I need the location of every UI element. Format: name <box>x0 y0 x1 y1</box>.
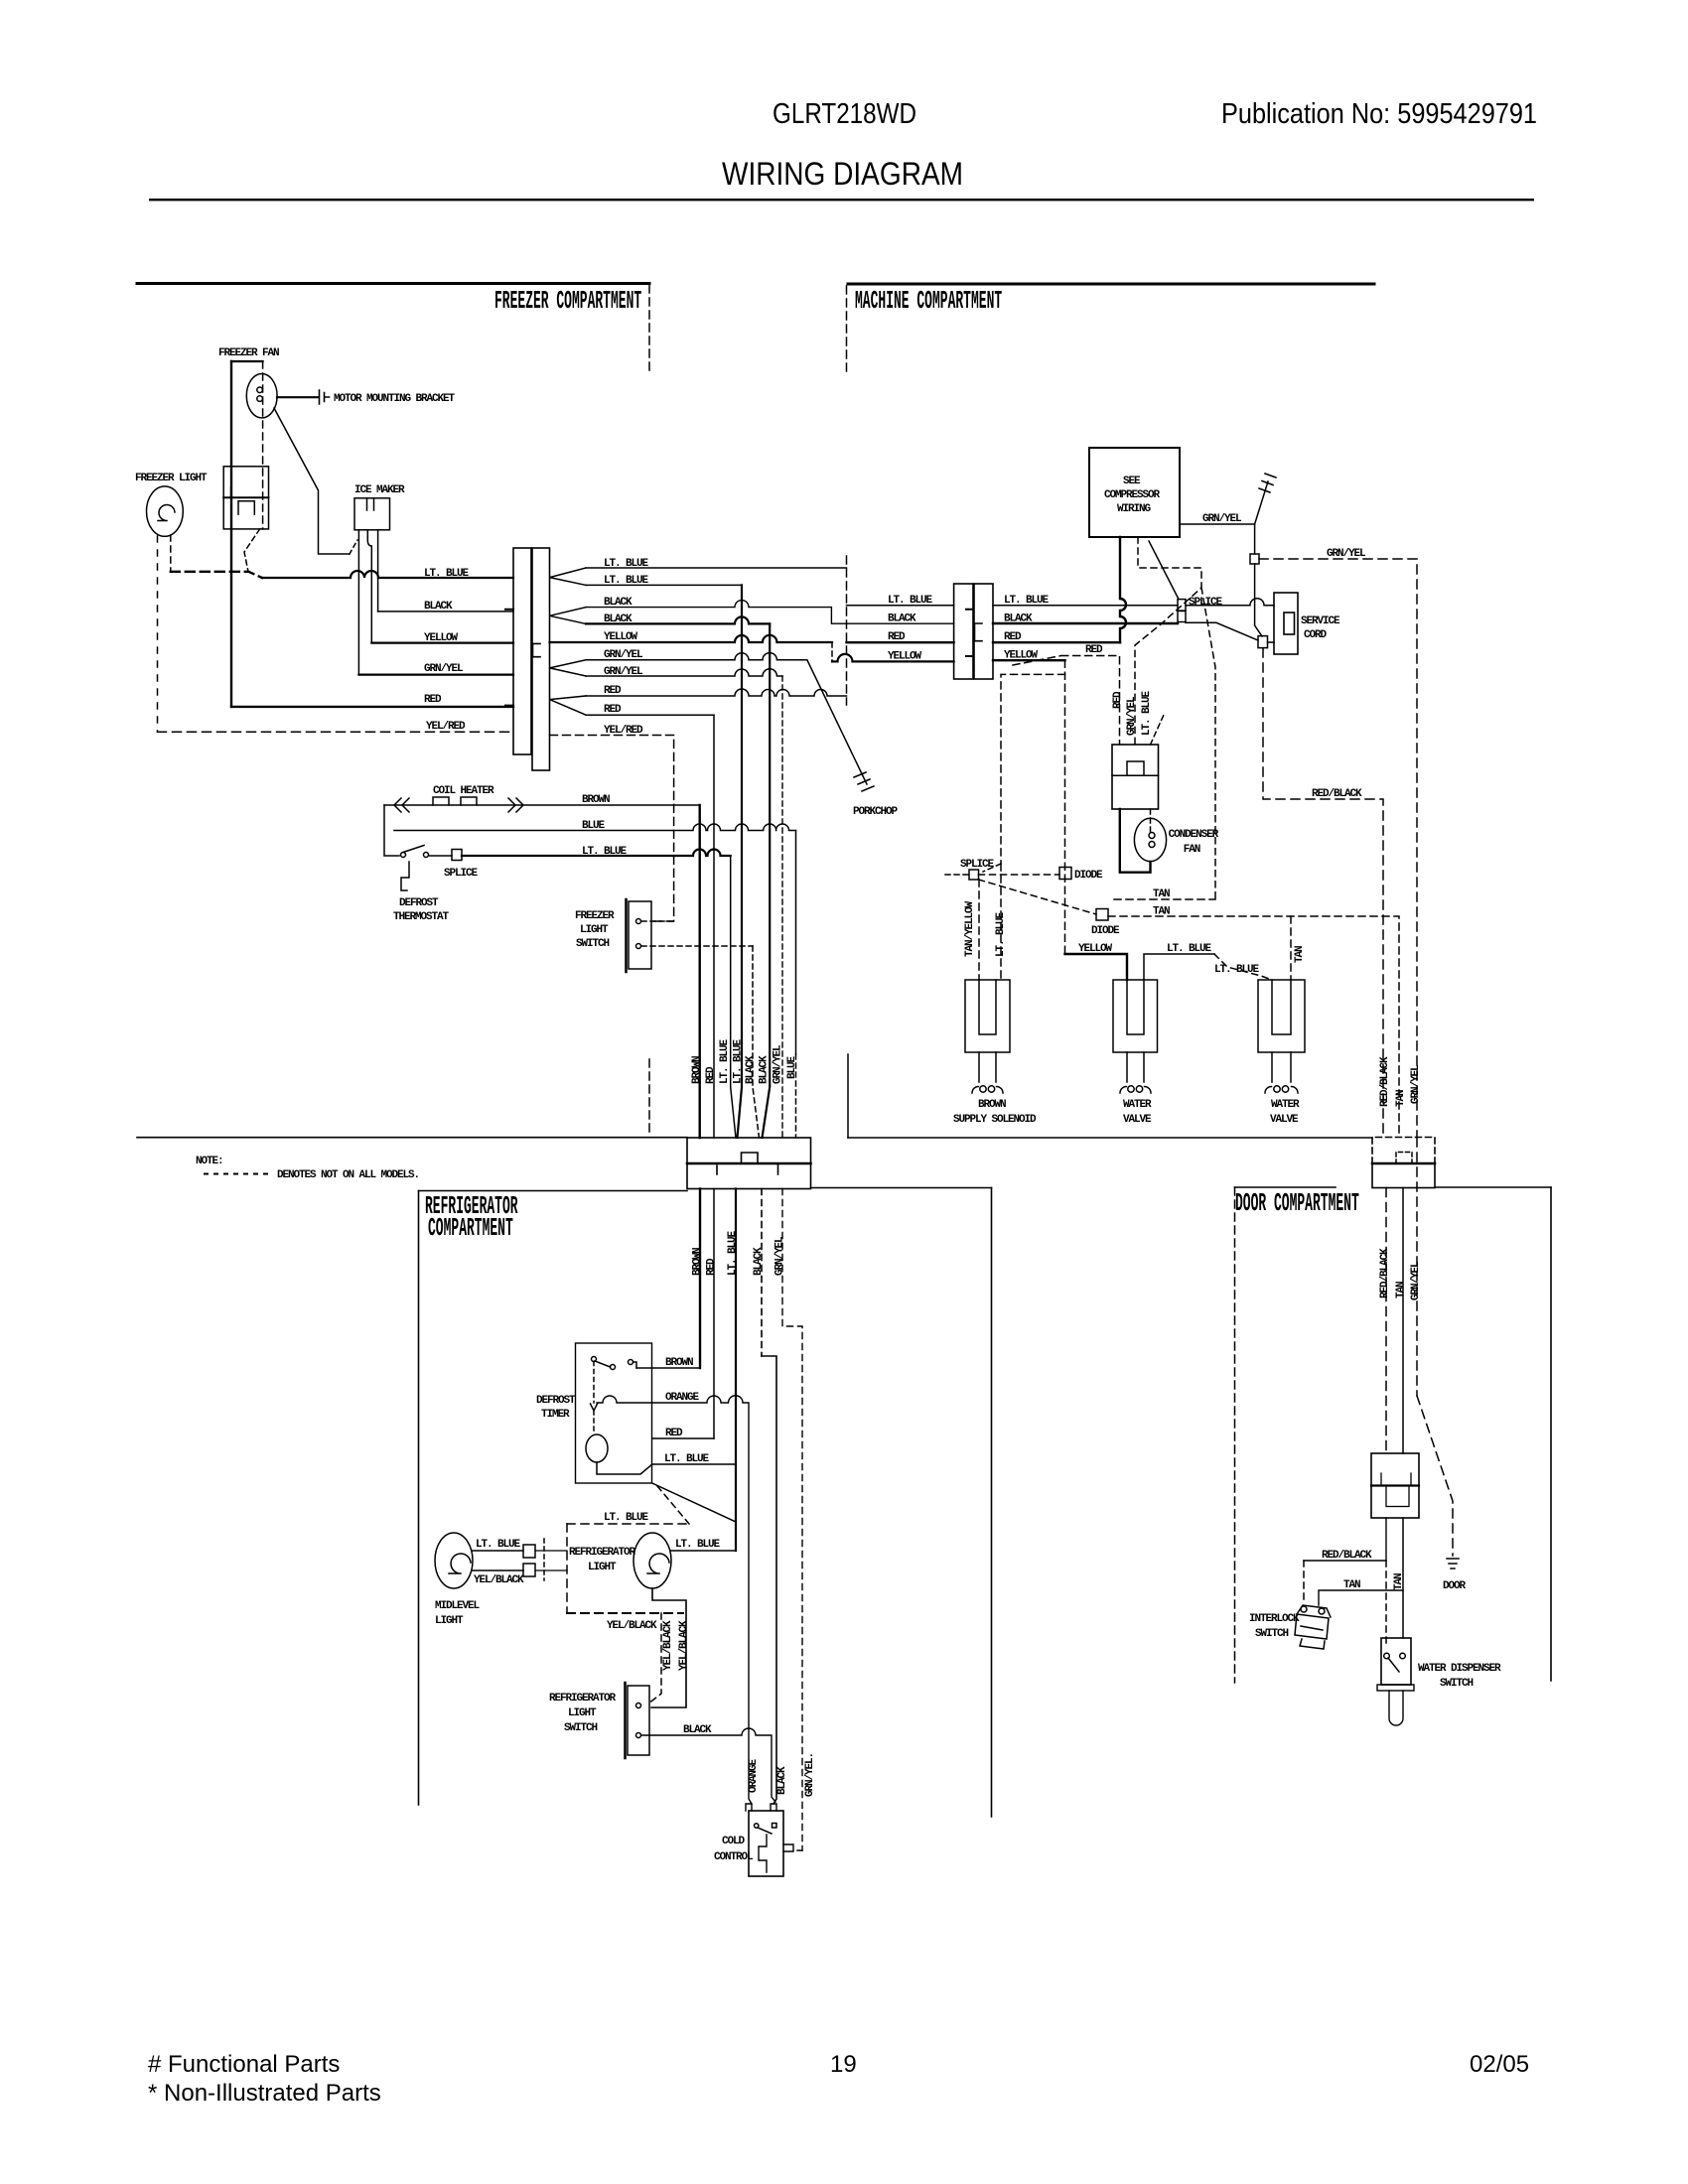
svg-text:LT. BLUE: LT. BLUE <box>664 1453 710 1465</box>
freezer bulkhead connector P1 <box>505 548 550 770</box>
svg-text:GLRT218WD: GLRT218WD <box>773 98 916 130</box>
svg-text:RED: RED <box>604 685 622 697</box>
refrigerator compartment top right border <box>811 1187 992 1189</box>
svg-text:COIL HEATER: COIL HEATER <box>433 785 494 797</box>
bus BLACK a dashed vertical <box>753 946 760 1138</box>
svg-text:YELLOW: YELLOW <box>1078 943 1113 955</box>
svg-text:SWITCH: SWITCH <box>1440 1678 1474 1690</box>
rotated label BLACK a <box>745 1055 757 1084</box>
water valve 1 body <box>1113 980 1158 1052</box>
condenser fan dashed feed <box>1150 809 1152 832</box>
wire splice2 to service cord <box>1268 641 1275 643</box>
bus RED below connector <box>713 1189 715 1439</box>
solenoid pins <box>979 1052 996 1082</box>
machine compartment top border <box>848 283 1374 286</box>
wire BLACK D to bus <box>586 616 770 623</box>
cold control body <box>749 1811 783 1876</box>
svg-text:LIGHT: LIGHT <box>588 1562 617 1573</box>
porkchop ground hatches <box>854 772 874 791</box>
svg-text:BLACK: BLACK <box>776 1766 788 1795</box>
svg-text:CONDENSER: CONDENSER <box>1169 829 1219 841</box>
svg-text:FREEZER LIGHT: FREEZER LIGHT <box>135 473 208 484</box>
rotated label BLACK cold <box>776 1766 788 1795</box>
wire BLACK dashed from switch to bus <box>641 945 753 947</box>
svg-text:TAN: TAN <box>1153 906 1170 918</box>
defrost timer motor wire <box>597 1462 652 1474</box>
svg-text:BROWN: BROWN <box>978 1099 1006 1111</box>
refrigerator compartment label <box>425 1193 518 1222</box>
svg-text:LT. BLUE: LT. BLUE <box>888 595 933 607</box>
coil heater element symbol <box>394 797 523 812</box>
solenoid coil <box>972 1086 1003 1093</box>
svg-text:RED: RED <box>424 694 442 706</box>
svg-text:LT. BLUE: LT. BLUE <box>424 568 470 580</box>
splice square solenoid <box>969 870 979 880</box>
svg-text:DOOR COMPARTMENT: DOOR COMPARTMENT <box>1235 1190 1359 1219</box>
defrost thermostat capillary <box>401 862 409 890</box>
rotated label TAN valve3 <box>1294 946 1306 963</box>
wire YEL/BLACK midlevel <box>473 1570 523 1571</box>
svg-text:LT. BLUE: LT. BLUE <box>995 911 1007 957</box>
svg-text:SEE: SEE <box>1123 476 1141 487</box>
svg-text:RED/BLACK: RED/BLACK <box>1379 1248 1391 1298</box>
bus BLACK jog <box>762 1356 776 1804</box>
rotated label LT. BLUE relay <box>1141 690 1153 736</box>
svg-text:LT. BLUE: LT. BLUE <box>1141 690 1153 736</box>
svg-text:WIRING: WIRING <box>1117 503 1152 515</box>
svg-text:FREEZER COMPARTMENT: FREEZER COMPARTMENT <box>494 288 641 317</box>
wire RED/BLACK dashed service down <box>1263 648 1383 1137</box>
wire BLACK splice to splice2 diagonal <box>1186 622 1258 640</box>
dashed from fan housing to light junction <box>244 529 260 572</box>
wire RED dashed to relay <box>1013 656 1120 746</box>
refrigerator light bulb <box>633 1533 671 1588</box>
rotated label GRN/YEL below <box>774 1236 786 1276</box>
wire RED timer <box>652 1437 714 1439</box>
svg-text:BLACK: BLACK <box>683 1724 712 1736</box>
rotated label TAN door <box>1395 1282 1407 1298</box>
svg-text:BROWN: BROWN <box>665 1357 693 1369</box>
rotated label TAN/YELLOW <box>964 900 976 957</box>
wire GRN/YEL 1 to porkchop <box>586 653 867 784</box>
condenser fan loop wire <box>1120 809 1151 873</box>
wire RED/BLACK below lower connector <box>1304 1518 1386 1561</box>
svg-text:SWITCH: SWITCH <box>576 938 610 950</box>
water valve 2 body <box>1258 980 1305 1052</box>
wire grn/yel splice to splice2 <box>1255 564 1262 636</box>
svg-text:RED: RED <box>1112 691 1124 709</box>
water valve 1 coil <box>1120 1086 1151 1093</box>
ice maker pin 1 wire to grn/yel <box>357 530 359 675</box>
svg-text:GRN/YEL: GRN/YEL <box>773 1044 784 1084</box>
wire LT. BLUE coil heater <box>462 850 731 857</box>
svg-text:RED: RED <box>705 1066 717 1084</box>
rotated label LT. BLUE b <box>733 1038 745 1084</box>
svg-text:GRN/YEL: GRN/YEL <box>1410 1064 1422 1104</box>
rotated label BLACK b <box>759 1055 771 1084</box>
svg-text:02/05: 02/05 <box>1470 2051 1529 2078</box>
rotated label ORANGE cold <box>748 1758 760 1793</box>
wire TAN 1 dashed <box>1114 898 1215 900</box>
freezer compartment label <box>494 288 641 317</box>
wire BLACK C to machine <box>586 601 954 624</box>
svg-text:DOOR: DOOR <box>1443 1580 1467 1592</box>
svg-text:TAN: TAN <box>1393 1573 1405 1590</box>
dashed YEL/BLACK zone to switch <box>648 1613 661 1704</box>
svg-text:ORANGE: ORANGE <box>748 1758 760 1793</box>
freezer fan motor <box>246 374 277 418</box>
wire BLACK light switch <box>641 1728 775 1802</box>
svg-text:FREEZER: FREEZER <box>575 910 615 922</box>
svg-text:YEL/BLACK: YEL/BLACK <box>662 1620 674 1671</box>
wire GRN/YEL door diagonal to ground <box>1417 1396 1453 1556</box>
svg-text:WATER DISPENSER: WATER DISPENSER <box>1418 1663 1501 1675</box>
connector chevron RED pair <box>550 696 587 715</box>
rotated label RED relay <box>1112 691 1124 709</box>
svg-text:YEL/BLACK: YEL/BLACK <box>607 1620 657 1632</box>
svg-text:VALVE: VALVE <box>1123 1114 1152 1126</box>
svg-text:LT. BLUE: LT. BLUE <box>476 1539 521 1551</box>
bus BLUE dashed lower <box>795 1054 797 1138</box>
wire fan to mounting bracket <box>277 396 318 398</box>
rotated label BLUE <box>786 1055 798 1079</box>
svg-text:SERVICE: SERVICE <box>1301 615 1340 627</box>
svg-text:LT. BLUE: LT. BLUE <box>675 1539 721 1551</box>
defrost timer cam dashed <box>593 1362 595 1404</box>
freezer light bulb <box>147 486 184 536</box>
svg-text:LIGHT: LIGHT <box>568 1707 597 1719</box>
wire GRN/YEL compressor to ground <box>1180 523 1255 525</box>
svg-text:LIGHT: LIGHT <box>580 924 609 936</box>
freezer light switch <box>627 899 652 972</box>
splice square 1b on black <box>1178 612 1186 622</box>
svg-text:DENOTES NOT ON ALL MODELS.: DENOTES NOT ON ALL MODELS. <box>277 1169 419 1181</box>
dashed link to ice maker pin <box>350 540 357 554</box>
svg-text:RED: RED <box>665 1428 683 1439</box>
freezer light dashed wire to switch circuit <box>170 535 172 572</box>
wire RED machine right <box>993 641 1120 643</box>
svg-text:Publication No: 5995429791: Publication No: 5995429791 <box>1221 98 1537 130</box>
freezer fan dashed wire <box>262 361 264 529</box>
dashed light zone top <box>567 1523 689 1525</box>
svg-text:SPLICE: SPLICE <box>444 868 479 880</box>
wire LT. BLUE machine left <box>847 605 954 607</box>
svg-text:LT. BLUE: LT. BLUE <box>1214 964 1260 976</box>
machine bulkhead connector P2 <box>954 584 993 679</box>
wire GRN/YEL freezer <box>358 673 513 675</box>
rotated label RED/BLACK door <box>1379 1248 1391 1298</box>
wire YEL/RED into switch <box>641 920 674 922</box>
svg-text:REFRIGERATOR: REFRIGERATOR <box>549 1693 617 1705</box>
svg-text:VALVE: VALVE <box>1270 1114 1299 1126</box>
wire fan diagonal to ice maker branch <box>274 408 350 554</box>
svg-text:BLUE: BLUE <box>582 820 606 832</box>
defrost thermostat switch <box>401 846 453 858</box>
svg-text:BLACK: BLACK <box>745 1055 757 1084</box>
defrost timer contacts <box>592 1357 637 1370</box>
svg-text:DEFROST: DEFROST <box>399 897 439 909</box>
ice maker pin 2 wire to yellow <box>367 530 371 643</box>
door compartment right border <box>1550 1187 1552 1681</box>
wire TAN lower <box>1402 1518 1404 1638</box>
water dispenser switch body <box>1381 1638 1411 1685</box>
compressor feed vertical with hops <box>1120 537 1126 642</box>
svg-text:TAN: TAN <box>1153 888 1170 900</box>
wire GRN/YEL 2 to bus <box>586 669 782 676</box>
machine compartment label <box>855 288 1002 317</box>
wire splice to diode2 dashed diagonal <box>979 880 1097 914</box>
svg-text:CONTROL: CONTROL <box>714 1851 754 1863</box>
svg-text:MIDLEVEL: MIDLEVEL <box>435 1600 481 1612</box>
splice square 1 on lt.blue <box>1178 600 1186 612</box>
splice square grn/yel service <box>1250 554 1259 564</box>
wire BROWN timer <box>636 1367 700 1369</box>
svg-text:RED/BLACK: RED/BLACK <box>1379 1056 1391 1107</box>
wire YEL/RED dashed right <box>550 736 674 922</box>
dashed branch to tan junction <box>1201 588 1215 899</box>
diagonal compressor box to splice <box>1149 541 1179 600</box>
rotated label BLACK below <box>753 1247 765 1276</box>
wire YELLOW machine side <box>832 654 954 662</box>
rotated label BROWN below <box>692 1248 704 1276</box>
connector chevron BLACK pair <box>550 608 587 624</box>
wire TAN interlock <box>1319 1590 1403 1605</box>
svg-text:YEL/RED: YEL/RED <box>426 721 466 733</box>
dashed stub left of splice <box>945 874 969 876</box>
defrost timer cam dashed lower <box>593 1411 595 1434</box>
condenser fan motor <box>1134 818 1166 861</box>
machine compartment left dashed border upper <box>846 286 848 373</box>
defrost timer box <box>576 1343 652 1483</box>
water dispenser switch flange <box>1377 1685 1414 1691</box>
svg-text:GRN/YEL: GRN/YEL <box>1327 548 1366 560</box>
wire YEL/BLACK bulb down <box>651 1588 686 1707</box>
water valve 2 pins <box>1272 1052 1291 1082</box>
wire LT. BLUE B to bus <box>586 584 742 586</box>
note dashed sample <box>205 1173 269 1175</box>
svg-text:GRN/YEL: GRN/YEL <box>774 1236 786 1276</box>
wire RED/BLACK door below connector <box>1385 1188 1387 1454</box>
wire BLACK freezer <box>378 611 513 613</box>
svg-text:RED: RED <box>706 1258 718 1276</box>
svg-text:YELLOW: YELLOW <box>424 632 459 644</box>
rotated label LT. BLUE below <box>727 1230 739 1276</box>
bus BLUE vertical <box>795 831 797 1055</box>
svg-text:THERMOSTAT: THERMOSTAT <box>393 911 450 923</box>
connector chevron LT. BLUE pair <box>550 568 587 585</box>
svg-text:SPLICE: SPLICE <box>1189 597 1223 609</box>
door compartment top left border <box>1235 1186 1336 1188</box>
dashed LT.BLUE diagonal into relay <box>1151 715 1165 745</box>
ice maker body <box>354 498 390 530</box>
svg-text:WIRING DIAGRAM: WIRING DIAGRAM <box>722 156 963 192</box>
svg-text:SPLICE: SPLICE <box>960 859 995 871</box>
dashed LT. BLUE to valve 3 <box>1214 954 1272 980</box>
rotated label BROWN <box>691 1056 703 1084</box>
wire YEL/RED dashed freezer <box>158 731 514 733</box>
svg-text:TAN: TAN <box>1395 1282 1407 1298</box>
wire LT. BLUE valve1 to valve3 <box>1144 954 1214 980</box>
rotated label LT. BLUE solenoid <box>995 911 1007 957</box>
brown supply solenoid body <box>965 980 1010 1052</box>
rotated label GRN/YEL door <box>1410 1261 1422 1300</box>
wire BLUE coil heater <box>394 824 796 831</box>
bus LT.BLUE b vertical <box>738 585 743 1138</box>
svg-text:BLACK: BLACK <box>1004 614 1033 625</box>
wire LT. BLUE timer <box>652 1463 736 1465</box>
rotated label RED below <box>706 1258 718 1276</box>
freezer fan housing box <box>223 467 268 529</box>
cold control bellows <box>759 1835 767 1872</box>
refrigerator compartment top left border <box>419 1190 688 1192</box>
bus BLACK b vertical <box>763 623 771 1138</box>
bus BLACK below connector dashed <box>761 1189 763 1357</box>
dashed to dispenser switch <box>1385 1561 1387 1643</box>
wire RED freezer <box>231 706 513 708</box>
wire BLACK machine right <box>993 622 1178 624</box>
svg-text:GRN/YEL.: GRN/YEL. <box>804 1753 816 1797</box>
dashed diagonal timer <box>657 1486 689 1524</box>
svg-text:RED: RED <box>888 631 906 643</box>
svg-text:NOTE:: NOTE: <box>196 1156 223 1167</box>
refrigerator compartment left border <box>418 1191 420 1806</box>
dashed solenoid right pin <box>1000 864 1002 980</box>
wire YELLOW freezer <box>371 641 513 643</box>
svg-text:SWITCH: SWITCH <box>1255 1628 1289 1640</box>
cold control stubs <box>746 1804 776 1811</box>
midlevel light bulb <box>435 1533 473 1588</box>
dashed TAN/YELLOW pin <box>978 880 980 980</box>
freezer fan left supply wire <box>230 361 232 707</box>
svg-text:FAN: FAN <box>1184 844 1200 856</box>
svg-text:LT. BLUE: LT. BLUE <box>1167 943 1212 955</box>
rotated label GRN/YEL <box>773 1044 784 1084</box>
chassis ground symbol top <box>1255 474 1276 524</box>
svg-text:DEFROST: DEFROST <box>536 1395 576 1407</box>
rotated label YEL/BLACK b <box>678 1620 690 1671</box>
svg-text:BROWN: BROWN <box>691 1056 703 1084</box>
door bulkhead connector P4 dashed top <box>1372 1138 1435 1188</box>
rotated label GRN/YEL cold <box>804 1753 816 1797</box>
machine compartment wall dashes wire transition zone <box>846 556 848 705</box>
machine compartment bottom border <box>848 1137 1372 1139</box>
wire YELLOW machine right <box>993 659 1065 661</box>
refrigerator light switch <box>626 1683 650 1758</box>
door compartment label <box>1235 1190 1359 1219</box>
wire GRN/YEL down to splice <box>1254 524 1256 554</box>
svg-text:SWITCH: SWITCH <box>564 1722 598 1734</box>
svg-text:BLACK: BLACK <box>753 1247 765 1276</box>
svg-text:LT. BLUE: LT. BLUE <box>1004 595 1050 607</box>
svg-text:BLACK: BLACK <box>888 614 916 625</box>
bus BROWN below connector <box>699 1189 701 1369</box>
freezer light wire down to yel/red <box>157 536 159 732</box>
svg-text:TIMER: TIMER <box>541 1409 570 1421</box>
dashed light zone bottom <box>567 1612 683 1614</box>
svg-text:COMPARTMENT: COMPARTMENT <box>428 1215 513 1244</box>
splice square 2 <box>1258 636 1268 648</box>
water valve 1 pins <box>1127 1052 1144 1082</box>
svg-text:SUPPLY SOLENOID: SUPPLY SOLENOID <box>953 1114 1037 1126</box>
wire splice to diode1 dashed <box>979 874 1060 876</box>
svg-text:TAN: TAN <box>1395 1090 1407 1107</box>
svg-text:GRN/YEL: GRN/YEL <box>1410 1261 1422 1300</box>
svg-text:INTERLOCK: INTERLOCK <box>1249 1613 1300 1625</box>
svg-text:FREEZER FAN: FREEZER FAN <box>218 347 279 359</box>
wire YELLOW dashed down <box>1064 660 1066 954</box>
svg-text:WATER: WATER <box>1271 1099 1300 1111</box>
interlock switch <box>1295 1605 1331 1649</box>
bus BROWN vertical <box>699 805 701 1138</box>
diode 1 <box>1059 868 1071 880</box>
wire TAN valve3 branch <box>1290 916 1292 980</box>
svg-text:REFRIGERATOR: REFRIGERATOR <box>569 1547 636 1559</box>
wire ORANGE timer <box>597 1396 752 1804</box>
dashed path compressor box to relay <box>1135 537 1201 745</box>
svg-text:GRN/YEL: GRN/YEL <box>424 663 464 675</box>
svg-text:MACHINE COMPARTMENT: MACHINE COMPARTMENT <box>855 288 1002 317</box>
rotated label GRN/YEL relay <box>1126 696 1138 736</box>
svg-text:COMPRESSOR: COMPRESSOR <box>1104 489 1161 501</box>
wire LT. BLUE splice to service cord <box>1186 599 1274 606</box>
wire TAN door below connector <box>1402 1188 1404 1454</box>
door lower connector P5 <box>1371 1453 1419 1518</box>
defrost timer cam arrow <box>591 1404 598 1411</box>
refrigerator compartment right border <box>991 1188 993 1818</box>
wire LT. BLUE refrigerator light <box>671 1550 736 1552</box>
diagonal timer to lt.blue bus <box>652 1483 736 1522</box>
svg-text:DIODE: DIODE <box>1074 870 1103 882</box>
svg-text:TAN/YELLOW: TAN/YELLOW <box>964 900 976 957</box>
bus RED vertical <box>713 715 715 1138</box>
compressor relay box <box>1112 745 1159 809</box>
door compartment top right border <box>1435 1186 1551 1188</box>
splice square thermostat <box>452 850 462 861</box>
rotated label LT. BLUE a <box>719 1038 731 1084</box>
svg-text:BROWN: BROWN <box>692 1248 704 1276</box>
wire TAN 2 dashed <box>1108 916 1399 1137</box>
svg-text:YEL/BLACK: YEL/BLACK <box>474 1574 524 1586</box>
svg-text:TAN: TAN <box>1294 946 1306 963</box>
wire BROWN coil heater <box>384 804 700 806</box>
rotated label GRN/YEL door feed <box>1410 1064 1422 1104</box>
see compressor wiring box <box>1089 448 1180 537</box>
svg-text:WATER: WATER <box>1123 1099 1152 1111</box>
svg-text:# Functional Parts: # Functional Parts <box>148 2051 340 2078</box>
freezer light heavy dashed wire <box>171 572 262 578</box>
wire RED 1 to wall <box>586 689 847 696</box>
door ground symbol <box>1447 1559 1459 1569</box>
wire YELLOW to valve 1 <box>1065 954 1128 980</box>
motor mounting bracket symbol <box>320 390 330 404</box>
svg-text:YEL/BLACK: YEL/BLACK <box>678 1620 690 1671</box>
wire YELLOW wall drop dashed <box>831 642 833 661</box>
svg-text:RED: RED <box>1004 631 1022 643</box>
ice maker pin 3 wire to black <box>377 530 379 612</box>
rotated label TAN door feed <box>1395 1090 1407 1107</box>
wire RED machine left <box>847 641 954 643</box>
grn/yel dashed into cold control <box>793 1849 802 1851</box>
dashed light zone left <box>566 1524 568 1613</box>
svg-text:LT. BLUE: LT. BLUE <box>582 846 628 858</box>
water valve 2 coil <box>1265 1086 1298 1093</box>
svg-text:GRN/YEL: GRN/YEL <box>1202 513 1242 525</box>
cold control contacts <box>755 1824 777 1835</box>
svg-text:BROWN: BROWN <box>582 794 610 806</box>
freezer compartment right dashed border lower <box>648 1059 650 1137</box>
refrigerator bulkhead connector P3 <box>687 1138 811 1189</box>
svg-text:DIODE: DIODE <box>1091 925 1120 937</box>
